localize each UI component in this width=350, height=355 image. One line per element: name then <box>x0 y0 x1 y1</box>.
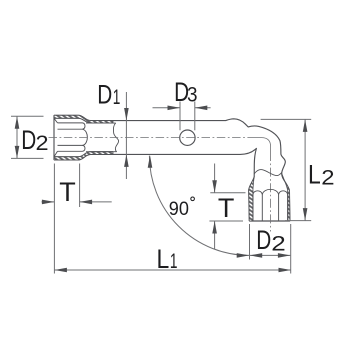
left socket mouth chamfer bottom <box>54 151 58 156</box>
vertical centerline <box>270 152 272 232</box>
shank bore wavy break line <box>113 123 118 152</box>
left socket mouth chamfer top <box>54 118 58 123</box>
label D2-bottom <box>256 226 286 256</box>
label D1 <box>97 80 120 110</box>
T-right arrow up <box>212 221 217 234</box>
90-degree arc <box>149 156 249 256</box>
bottom socket internal line 4 <box>287 195 289 222</box>
bottom socket right wall inner line <box>287 191 289 222</box>
label T-right <box>218 193 235 223</box>
label L1 <box>157 244 178 274</box>
bottom socket internal line 3 <box>278 195 280 222</box>
L2 arrow up <box>303 119 308 131</box>
D2-left top extension line <box>11 115 44 117</box>
left socket bottom rim hatch band <box>54 152 113 160</box>
bottom socket left wall hatch band <box>249 177 255 221</box>
left socket top rim hatch band <box>54 115 113 123</box>
svg-text:D: D <box>256 226 271 256</box>
T-left arrow right <box>42 200 55 205</box>
T-right bottom extension line <box>209 220 243 222</box>
left socket internal profile line 1 <box>58 122 83 124</box>
left socket bottom rim inner line <box>54 152 113 157</box>
L2 top extension line <box>261 118 312 120</box>
D2-bottom arrow left <box>250 253 263 258</box>
T-right dimension line upper part <box>214 164 216 193</box>
D3 right extension line <box>194 102 196 131</box>
svg-text:90: 90 <box>169 197 189 219</box>
bottom socket lobe cap left <box>253 191 262 195</box>
D2-left arrow up <box>15 116 20 129</box>
D1 arrow down <box>124 108 129 121</box>
bottom socket lobe cap middle <box>262 189 278 194</box>
left socket top rim inner line <box>54 118 113 123</box>
D3 dimension line left part <box>153 107 181 109</box>
svg-text:L: L <box>308 160 321 190</box>
svg-text:3: 3 <box>187 84 198 107</box>
bottom socket left wall inner line <box>252 191 254 222</box>
D3 dimension line right part <box>195 107 211 109</box>
T-right dimension line lower part <box>214 221 216 249</box>
bottom socket right wall hatch band <box>282 173 290 221</box>
D2-left arrow down <box>15 146 20 159</box>
L2 dimension line <box>304 119 306 220</box>
shank bore top line <box>86 122 116 124</box>
T-right arrow down <box>212 180 217 193</box>
90-degree arc arrow up <box>148 155 153 168</box>
bottom socket lobe cap right <box>279 191 288 195</box>
T-left right extension line <box>79 164 81 208</box>
shank bore bottom line <box>86 151 117 153</box>
svg-text:L: L <box>157 244 170 274</box>
T-left dimension line left part <box>42 201 55 203</box>
left socket lobe cap middle <box>83 129 88 145</box>
T-left dimension line right part <box>80 201 112 203</box>
label L2 <box>308 160 335 190</box>
T-left long extension line <box>53 164 55 274</box>
left socket lobe cap small top <box>83 123 85 129</box>
D2-bottom right extension line <box>290 224 292 274</box>
D2-bottom dimension line <box>250 254 291 256</box>
svg-text:1: 1 <box>170 249 178 273</box>
svg-text:D: D <box>97 80 112 110</box>
D2-bottom arrow right <box>278 253 291 258</box>
D3 arrow left <box>195 106 208 111</box>
svg-text:1: 1 <box>113 85 121 109</box>
svg-text:D: D <box>21 125 36 155</box>
bottom socket internal line 1 <box>252 195 254 222</box>
vertical arm forge break line <box>254 170 282 176</box>
L2 arrow down <box>303 208 308 221</box>
D3 arrow right <box>168 106 181 111</box>
D2-bottom left extension line <box>249 224 251 260</box>
T-right top extension line <box>210 192 245 194</box>
left socket mouth edge <box>53 115 55 160</box>
left socket / shank bottom outline <box>54 148 256 221</box>
D2-left bottom extension line <box>11 157 44 159</box>
D1 arrow up <box>124 154 129 167</box>
centerline corner <box>255 138 271 152</box>
D2-left dimension line <box>16 116 18 158</box>
left socket internal profile line 4 <box>58 150 83 152</box>
svg-text:T: T <box>218 193 235 223</box>
L1 dimension line <box>54 269 291 271</box>
svg-text:2: 2 <box>271 233 285 256</box>
D1 dimension line <box>125 92 127 179</box>
label D3 <box>174 78 197 108</box>
tommy-bar hole D3 <box>180 130 195 145</box>
bottom socket mouth rim <box>249 220 290 222</box>
left socket lobe cap small bottom <box>83 145 85 151</box>
svg-text:2: 2 <box>321 166 334 189</box>
T-left arrow left <box>80 200 93 205</box>
L1 arrow right <box>279 268 292 273</box>
label T-left <box>59 177 76 207</box>
L2 bottom extension line <box>285 220 311 222</box>
D3 left extension line <box>179 102 181 131</box>
L1 arrow left <box>54 268 67 273</box>
label 90-degree <box>169 197 195 219</box>
svg-text:2: 2 <box>36 131 49 155</box>
label D2-left <box>21 125 48 155</box>
90-degree arc arrow right <box>237 253 250 258</box>
bottom socket internal line 2 <box>261 195 263 222</box>
left socket / shank top outline <box>54 115 290 221</box>
horizontal centerline <box>49 137 256 139</box>
left socket internal profile line 2 <box>58 128 83 130</box>
left socket internal profile line 3 <box>58 144 83 146</box>
svg-text:T: T <box>59 177 76 207</box>
